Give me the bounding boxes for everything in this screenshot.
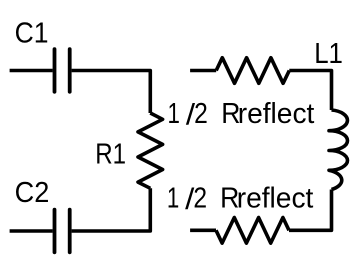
wire: bottom 1/2 Rreflect left lead — [190, 229, 216, 233]
wire: top 1/2 Rreflect left lead — [190, 69, 216, 73]
wire: C2 left lead — [10, 229, 53, 233]
svg-text:L1: L1 — [314, 38, 343, 70]
wire: L1 bottom to bottom-right corner — [289, 190, 332, 231]
svg-text:C1: C1 — [15, 17, 49, 49]
svg-text:1: 1 — [167, 182, 179, 214]
label bottom: 1/2 Rreflect — [167, 182, 314, 216]
resistor R1 — [138, 113, 163, 188]
svg-text:R1: R1 — [95, 138, 126, 170]
svg-text:reflect: reflect — [238, 98, 315, 130]
resistor: bottom 1/2 Rreflect — [216, 218, 289, 244]
svg-text:1: 1 — [168, 98, 180, 130]
wire: C1 left lead — [10, 69, 53, 73]
wire: R1 bottom to bottom rail corner — [72, 188, 151, 231]
wire: C1 right lead to top-right corner node — [72, 71, 151, 114]
capacitor C1 — [55, 49, 70, 92]
capacitor C2 — [55, 210, 70, 253]
svg-text:C2: C2 — [15, 177, 50, 209]
wire: top rail to L1 top corner — [289, 71, 331, 111]
svg-text:reflect: reflect — [237, 182, 314, 214]
svg-text:2: 2 — [194, 98, 208, 130]
resistor: top 1/2 Rreflect — [216, 58, 289, 84]
inductor L1 — [329, 110, 348, 190]
label top: 1/2 Rreflect — [168, 98, 315, 132]
svg-text:2: 2 — [193, 182, 207, 214]
